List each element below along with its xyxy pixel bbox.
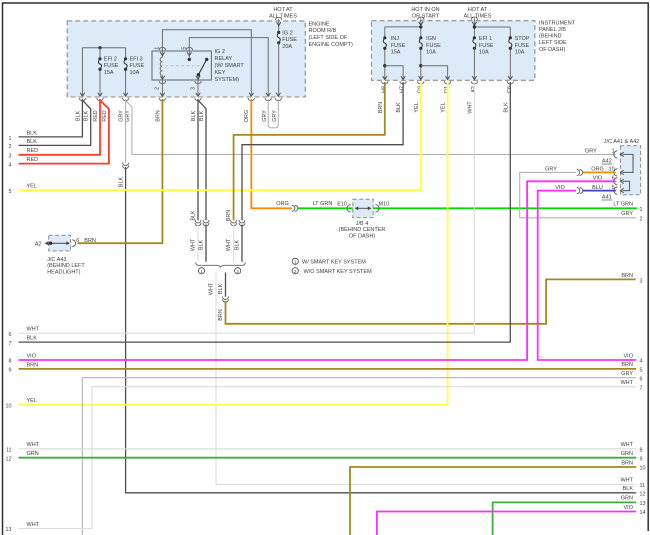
junction connector J/C A41+A42 box bbox=[620, 146, 640, 195]
svg-text:1: 1 bbox=[294, 259, 297, 264]
wire ORG A42 pin 10 bbox=[583, 171, 616, 173]
svg-text:YEL: YEL bbox=[27, 184, 37, 190]
fuse IG 2 lead bbox=[278, 43, 280, 96]
fuse EFI 2 lead bbox=[99, 48, 101, 96]
wire GRY loop below box bbox=[268, 99, 278, 128]
svg-text:GRY: GRY bbox=[585, 149, 597, 155]
instrument panel J/B exit H8 bbox=[383, 76, 387, 79]
svg-text:10A: 10A bbox=[515, 50, 525, 56]
svg-text:WHT: WHT bbox=[27, 327, 40, 333]
svg-text:GRY: GRY bbox=[262, 110, 268, 122]
svg-text:BLK: BLK bbox=[235, 240, 241, 251]
wire LT GRN to J/B 4 bbox=[298, 207, 637, 209]
engine room R/B exit RED pair bbox=[98, 93, 102, 96]
svg-text:BLU: BLU bbox=[592, 185, 603, 191]
J/B 4 right connector bbox=[375, 205, 379, 212]
svg-text:12: 12 bbox=[640, 492, 646, 498]
svg-text:13: 13 bbox=[6, 527, 12, 533]
svg-text:HOT AT: HOT AT bbox=[468, 7, 488, 13]
wire D1 YEL to left edge 10 bbox=[19, 82, 448, 405]
svg-text:10A: 10A bbox=[479, 50, 489, 56]
wire BLK pair1 below bbox=[205, 225, 207, 262]
svg-text:WHT: WHT bbox=[468, 101, 474, 114]
node INJ branch junction bbox=[383, 64, 386, 67]
svg-text:GRY: GRY bbox=[621, 371, 633, 377]
svg-text:GRY: GRY bbox=[119, 110, 125, 122]
svg-text:WHT: WHT bbox=[226, 238, 232, 251]
wire GRY-BLK vertical bbox=[125, 99, 127, 163]
svg-text:OR START: OR START bbox=[412, 13, 440, 19]
svg-text:BLK: BLK bbox=[27, 139, 38, 145]
svg-text:15A: 15A bbox=[391, 50, 401, 56]
svg-text:FUSE: FUSE bbox=[282, 37, 297, 43]
wire 4 RED left bbox=[19, 101, 109, 164]
engine room R/B exit BLK pair bbox=[80, 93, 84, 96]
wire 14 VIO right edge to bottom bbox=[377, 512, 636, 535]
J/B 4 double arrow bbox=[357, 207, 370, 209]
connector GRY/ORG pin10 bbox=[577, 169, 580, 175]
svg-text:BRN: BRN bbox=[621, 362, 633, 368]
engine room R/B exit GRY loop a bbox=[266, 93, 270, 96]
svg-text:BRN: BRN bbox=[226, 210, 232, 221]
relay pin 5 terminal bbox=[186, 47, 192, 50]
svg-text:E10: E10 bbox=[337, 202, 347, 208]
wire 6 GRY right edge to bottom bbox=[82, 378, 636, 535]
svg-text:BLK: BLK bbox=[218, 284, 224, 295]
svg-text:FUSE: FUSE bbox=[130, 63, 145, 69]
svg-text:YEL: YEL bbox=[441, 102, 447, 112]
svg-text:A2: A2 bbox=[35, 241, 42, 247]
svg-text:6: 6 bbox=[640, 376, 643, 382]
fuse EFI 2 bbox=[98, 59, 101, 69]
svg-text:5: 5 bbox=[182, 47, 188, 50]
wire 7 WHT right edge to left edge 13 bbox=[19, 387, 637, 529]
instrument panel J/B exit C6 bbox=[508, 76, 512, 79]
svg-text:(LEFT SIDE OF: (LEFT SIDE OF bbox=[309, 35, 348, 41]
svg-text:M10: M10 bbox=[379, 202, 390, 208]
svg-text:FUSE: FUSE bbox=[391, 43, 406, 49]
svg-text:WHT: WHT bbox=[27, 442, 40, 448]
J/C A43 node bbox=[49, 242, 52, 245]
J/C A43 through wire bbox=[49, 242, 69, 244]
node IGN branch junction bbox=[419, 64, 422, 67]
svg-text:VIO: VIO bbox=[624, 353, 634, 359]
svg-text:J/B 4: J/B 4 bbox=[356, 221, 369, 227]
svg-text:3: 3 bbox=[190, 87, 196, 90]
instrument panel J/B exit D1 bbox=[445, 76, 449, 79]
svg-text:LEFT SIDE: LEFT SIDE bbox=[539, 40, 567, 46]
engine room R/B exit BLK pin3 pair bbox=[196, 93, 200, 96]
svg-text:LT GRN: LT GRN bbox=[313, 201, 333, 207]
wire BLK pin3 b bbox=[198, 101, 206, 221]
svg-text:(BEHIND: (BEHIND bbox=[539, 34, 562, 40]
svg-text:WHT: WHT bbox=[191, 238, 197, 251]
svg-text:7: 7 bbox=[640, 385, 643, 391]
svg-text:BRN: BRN bbox=[621, 273, 633, 279]
svg-text:BLK: BLK bbox=[27, 131, 38, 137]
svg-text:BLK: BLK bbox=[199, 240, 205, 251]
svg-text:10: 10 bbox=[640, 466, 646, 472]
wire 2 GRY right edge bbox=[520, 172, 637, 217]
feed crossing hot-in-on bbox=[418, 17, 424, 20]
instrument panel J/B exit A2 bbox=[472, 76, 476, 79]
svg-text:BLK: BLK bbox=[84, 111, 90, 122]
wire WHT pair2 below bbox=[233, 225, 235, 262]
svg-text:BRN: BRN bbox=[84, 238, 96, 244]
J/C A41 pin 5 terminal bbox=[614, 187, 618, 194]
wire feed hot-at-all-times bbox=[473, 18, 475, 37]
option 2 circled number bbox=[235, 268, 241, 274]
wire 13 GRN right edge to bottom bbox=[493, 502, 637, 535]
relay dashed link bbox=[166, 65, 202, 67]
J/C A43 exit arrow bbox=[66, 241, 70, 245]
fuse EFI 3 lead bbox=[125, 48, 127, 96]
node EFI2 rail junction bbox=[98, 46, 101, 49]
svg-text:GRN: GRN bbox=[621, 451, 633, 457]
svg-text:VIO: VIO bbox=[624, 505, 634, 511]
svg-text:4: 4 bbox=[640, 359, 643, 365]
wire 10 BRN right edge to bottom bbox=[350, 467, 636, 535]
svg-text:IG 2: IG 2 bbox=[215, 49, 225, 55]
svg-text:WHT: WHT bbox=[620, 380, 633, 386]
instrument panel J/B dashed box bbox=[372, 21, 535, 81]
svg-text:9: 9 bbox=[9, 368, 12, 374]
wire top rail EFI2/EFI3 bbox=[82, 47, 125, 49]
svg-text:BLK: BLK bbox=[503, 102, 509, 113]
svg-text:INJ: INJ bbox=[391, 36, 400, 42]
engine room R/B exit ORG bbox=[249, 93, 253, 96]
legend option 2 bbox=[292, 268, 298, 274]
fuse IGN bbox=[419, 38, 422, 49]
svg-text:J/C A41 & A42: J/C A41 & A42 bbox=[604, 139, 639, 145]
wire feed hot-in-on bbox=[420, 18, 422, 37]
wire relay pin3 drop bbox=[197, 80, 199, 96]
svg-text:HOT AT: HOT AT bbox=[273, 7, 293, 13]
svg-text:J/C A43: J/C A43 bbox=[47, 257, 66, 263]
svg-text:RELAY: RELAY bbox=[215, 56, 233, 62]
wire C6 BLK to left edge 7 bbox=[19, 82, 511, 342]
svg-text:STOP: STOP bbox=[515, 36, 530, 42]
fuse IG 2 feed crossing bbox=[276, 17, 282, 20]
engine room R/B exit GRY pair bbox=[123, 93, 127, 96]
wire rail INJ-IGN bbox=[385, 26, 421, 28]
svg-text:3: 3 bbox=[9, 154, 12, 160]
svg-text:OF DASH): OF DASH) bbox=[349, 234, 375, 240]
connector pair 2 b bbox=[239, 220, 245, 223]
wire BLU A41 pin 5 bbox=[583, 190, 616, 192]
connector pair 2 a bbox=[231, 220, 237, 223]
svg-text:GRY: GRY bbox=[621, 211, 633, 217]
svg-text:(BEHIND LEFT: (BEHIND LEFT bbox=[47, 263, 85, 269]
svg-text:5: 5 bbox=[9, 189, 12, 195]
svg-text:2: 2 bbox=[155, 87, 161, 90]
legend option 1 bbox=[292, 258, 298, 264]
feed crossing hot-at-all-times bbox=[471, 17, 477, 20]
svg-text:BLK: BLK bbox=[191, 111, 197, 122]
svg-text:W/O SMART KEY SYSTEM: W/O SMART KEY SYSTEM bbox=[304, 269, 373, 275]
J/C A42 jumper 1-10 bbox=[623, 154, 634, 172]
instrument panel J/B exit G9 bbox=[419, 76, 423, 79]
engine room R/B exit GRY loop b bbox=[276, 93, 280, 96]
wire H8 BRN to option2 bbox=[234, 82, 385, 220]
J/C A43 entry arrow bbox=[45, 241, 49, 245]
svg-text:RED: RED bbox=[27, 157, 39, 163]
wire relay pin5 rail bbox=[189, 38, 268, 96]
wire WHT merged to right edge 11 bbox=[216, 273, 636, 485]
wire VIO A41 pin5 to right edge 4 bbox=[538, 191, 637, 360]
connector BLK/BRN bbox=[223, 296, 229, 299]
svg-text:15A: 15A bbox=[104, 70, 114, 76]
wire rail EFI1-STOP bbox=[474, 26, 510, 28]
svg-text:7: 7 bbox=[9, 341, 12, 347]
svg-text:BLK: BLK bbox=[191, 210, 197, 221]
J/C A41 jumper 6-5 bbox=[623, 181, 630, 190]
svg-text:ORG: ORG bbox=[276, 201, 289, 207]
svg-text:BLK: BLK bbox=[75, 111, 81, 122]
svg-text:6: 6 bbox=[76, 238, 79, 244]
wire INJ branch to H7 bbox=[385, 66, 403, 80]
svg-text:3: 3 bbox=[640, 278, 643, 284]
svg-text:2: 2 bbox=[236, 269, 239, 274]
svg-text:FUSE: FUSE bbox=[426, 43, 441, 49]
svg-text:GRY: GRY bbox=[272, 110, 278, 122]
wire left drop to exit bbox=[81, 48, 83, 96]
J/C A43 connector bbox=[72, 240, 75, 247]
wire 3 RED left bbox=[19, 99, 101, 155]
svg-text:(W/ SMART: (W/ SMART bbox=[215, 63, 245, 69]
wire BRN to right edge 3 bbox=[226, 279, 636, 323]
wire BLK pair2 below bbox=[241, 225, 243, 262]
svg-text:KEY: KEY bbox=[215, 70, 226, 76]
instrument panel J/B exit H7 bbox=[401, 76, 405, 79]
wire 2 BLK left bbox=[19, 101, 91, 146]
svg-text:WHT: WHT bbox=[209, 282, 215, 295]
connector ORG/LT GRN bbox=[292, 205, 295, 211]
svg-text:WHT: WHT bbox=[27, 522, 40, 528]
relay pin 1 terminal bbox=[159, 47, 165, 50]
fuse EFI 1 lead bbox=[473, 48, 475, 79]
svg-text:EFI 2: EFI 2 bbox=[104, 56, 117, 62]
svg-text:ALL TIMES: ALL TIMES bbox=[269, 13, 297, 19]
svg-text:1: 1 bbox=[640, 207, 643, 213]
svg-text:VIO: VIO bbox=[27, 353, 37, 359]
svg-text:PANEL J/B: PANEL J/B bbox=[539, 27, 566, 33]
node rail EFI1 junction bbox=[473, 25, 476, 28]
wire BLK pin3 a bbox=[197, 99, 199, 220]
J/C A42 pin 1 terminal bbox=[614, 151, 618, 158]
svg-text:11: 11 bbox=[6, 448, 12, 454]
svg-text:OF DASH): OF DASH) bbox=[539, 47, 565, 53]
junction connector J/C A43 box bbox=[49, 235, 71, 251]
svg-text:2: 2 bbox=[9, 144, 12, 150]
svg-text:6: 6 bbox=[9, 332, 12, 338]
relay switch arm bbox=[198, 59, 206, 74]
wire H7 BLK to option2 bbox=[242, 82, 403, 220]
wire 5 YEL bbox=[19, 82, 421, 190]
svg-text:14: 14 bbox=[640, 510, 646, 516]
engine room R/B dashed box bbox=[67, 21, 305, 97]
svg-text:HEADLIGHT): HEADLIGHT) bbox=[47, 270, 80, 276]
wire 11 WHT full width bbox=[19, 448, 637, 450]
svg-text:BRN: BRN bbox=[621, 460, 633, 466]
svg-text:BRN: BRN bbox=[378, 102, 384, 113]
svg-text:10: 10 bbox=[6, 403, 12, 409]
connector pair 1 a bbox=[195, 220, 201, 223]
svg-text:2: 2 bbox=[294, 269, 297, 274]
svg-text:IG 2: IG 2 bbox=[282, 30, 292, 36]
svg-text:1: 1 bbox=[155, 47, 161, 50]
wire INJ drop bbox=[384, 27, 386, 79]
connector GRY/BLK bbox=[123, 163, 129, 166]
svg-text:BRN: BRN bbox=[155, 110, 161, 121]
svg-text:8: 8 bbox=[640, 448, 643, 454]
wire VIO A41 pin6 to left edge 8 bbox=[19, 181, 616, 360]
relay switch lead to pin 3 bbox=[197, 76, 199, 80]
svg-text:4: 4 bbox=[9, 162, 12, 168]
wire ORG from relay pin1 bbox=[251, 99, 291, 208]
connector VIO/BLU pin5 bbox=[577, 188, 580, 194]
svg-text:5: 5 bbox=[640, 368, 643, 374]
brace option merge bbox=[196, 262, 246, 267]
svg-text:INSTRUMENT: INSTRUMENT bbox=[539, 20, 576, 26]
svg-text:W/ SMART KEY SYSTEM: W/ SMART KEY SYSTEM bbox=[302, 260, 366, 266]
relay pin 2 terminal bbox=[160, 76, 164, 79]
svg-text:SYSTEM): SYSTEM) bbox=[215, 77, 240, 83]
svg-text:EFI 3: EFI 3 bbox=[130, 56, 143, 62]
svg-text:FUSE: FUSE bbox=[515, 43, 530, 49]
svg-text:WHT: WHT bbox=[620, 442, 633, 448]
connector pair 1 b bbox=[203, 220, 209, 223]
svg-text:BLK: BLK bbox=[118, 177, 124, 188]
wire relay pin1 rail bbox=[162, 30, 251, 96]
svg-text:FUSE: FUSE bbox=[479, 43, 494, 49]
svg-text:ROOM R/B: ROOM R/B bbox=[309, 28, 337, 34]
wire IGN branch to D1 bbox=[421, 66, 448, 80]
wire WHT pair1 below bbox=[197, 225, 199, 262]
option 1 circled number bbox=[198, 268, 204, 274]
wire BRN to J/C A43 bbox=[78, 99, 163, 243]
svg-text:RED: RED bbox=[102, 110, 108, 121]
wire BLK merged bbox=[225, 273, 227, 297]
J/B 4 left connector bbox=[347, 205, 351, 212]
svg-text:EFI 1: EFI 1 bbox=[479, 36, 492, 42]
svg-text:ENGINE: ENGINE bbox=[309, 21, 330, 27]
svg-text:HOT IN ON: HOT IN ON bbox=[411, 7, 439, 13]
svg-text:(BEHIND CENTER: (BEHIND CENTER bbox=[339, 227, 386, 233]
svg-text:BLK: BLK bbox=[199, 111, 205, 122]
svg-text:GRN: GRN bbox=[27, 451, 39, 457]
relay pin 5 stub bbox=[188, 51, 190, 58]
fuse INJ bbox=[383, 38, 386, 49]
svg-text:9: 9 bbox=[640, 456, 643, 462]
fuse STOP bbox=[509, 38, 512, 49]
relay pin 5 contact bbox=[188, 58, 191, 61]
svg-text:BRN: BRN bbox=[27, 362, 39, 368]
fuse EFI 3 bbox=[124, 59, 127, 69]
svg-text:BLK: BLK bbox=[27, 336, 38, 342]
relay switch fixed contact bbox=[205, 58, 208, 61]
svg-text:YEL: YEL bbox=[414, 102, 420, 112]
wire relay pin2 drop bbox=[161, 80, 163, 96]
svg-text:ORG: ORG bbox=[244, 110, 250, 122]
svg-text:ENGINE COMPT): ENGINE COMPT) bbox=[309, 42, 353, 48]
svg-text:YEL: YEL bbox=[27, 398, 37, 404]
svg-text:8: 8 bbox=[9, 359, 12, 365]
svg-text:1: 1 bbox=[612, 149, 615, 155]
svg-text:10A: 10A bbox=[130, 70, 140, 76]
wire 12 GRN full width bbox=[19, 457, 637, 459]
fuse IGN lead bbox=[420, 48, 422, 79]
J/C A42 pin 10 terminal bbox=[614, 169, 618, 176]
svg-text:2: 2 bbox=[640, 216, 643, 222]
svg-text:BRN: BRN bbox=[218, 309, 224, 320]
wire 9 BRN full width bbox=[19, 368, 637, 370]
svg-text:13: 13 bbox=[640, 501, 646, 507]
relay coil bbox=[160, 57, 162, 75]
svg-text:GRY: GRY bbox=[545, 167, 557, 173]
svg-text:WHT: WHT bbox=[620, 478, 633, 484]
wire 1 BLK left bbox=[19, 99, 83, 137]
wire A2 WHT to left edge 6 bbox=[19, 82, 475, 333]
svg-text:RED: RED bbox=[27, 148, 39, 154]
J/C A41 pin 6 terminal bbox=[614, 178, 618, 185]
svg-text:12: 12 bbox=[6, 456, 12, 462]
svg-text:BLK: BLK bbox=[396, 102, 402, 113]
engine room R/B exit BRN bbox=[160, 93, 164, 96]
relay pin 3 terminal bbox=[196, 76, 200, 79]
svg-text:FUSE: FUSE bbox=[104, 63, 119, 69]
fuse EFI 1 bbox=[473, 38, 476, 49]
svg-text:20A: 20A bbox=[282, 44, 292, 50]
svg-text:1: 1 bbox=[9, 136, 12, 142]
wire GRY to J/C A42 pin 1 bbox=[126, 101, 616, 154]
relay box IG 2 bbox=[152, 51, 211, 80]
wire STOP drop bbox=[509, 27, 511, 79]
junction block J/B 4 box bbox=[353, 199, 373, 217]
svg-text:11: 11 bbox=[640, 483, 646, 489]
svg-text:RED: RED bbox=[93, 110, 99, 121]
svg-text:BLK: BLK bbox=[623, 486, 634, 492]
svg-text:GRN: GRN bbox=[621, 496, 633, 502]
fuse IG 2 feed bbox=[278, 19, 280, 33]
svg-text:IGN: IGN bbox=[426, 36, 436, 42]
svg-text:LT GRN: LT GRN bbox=[613, 202, 633, 208]
node rail IGN junction bbox=[419, 25, 422, 28]
svg-text:1: 1 bbox=[200, 269, 203, 274]
fuse IG 2 bbox=[277, 32, 280, 43]
svg-text:10A: 10A bbox=[426, 50, 436, 56]
svg-text:ORG: ORG bbox=[591, 167, 604, 173]
